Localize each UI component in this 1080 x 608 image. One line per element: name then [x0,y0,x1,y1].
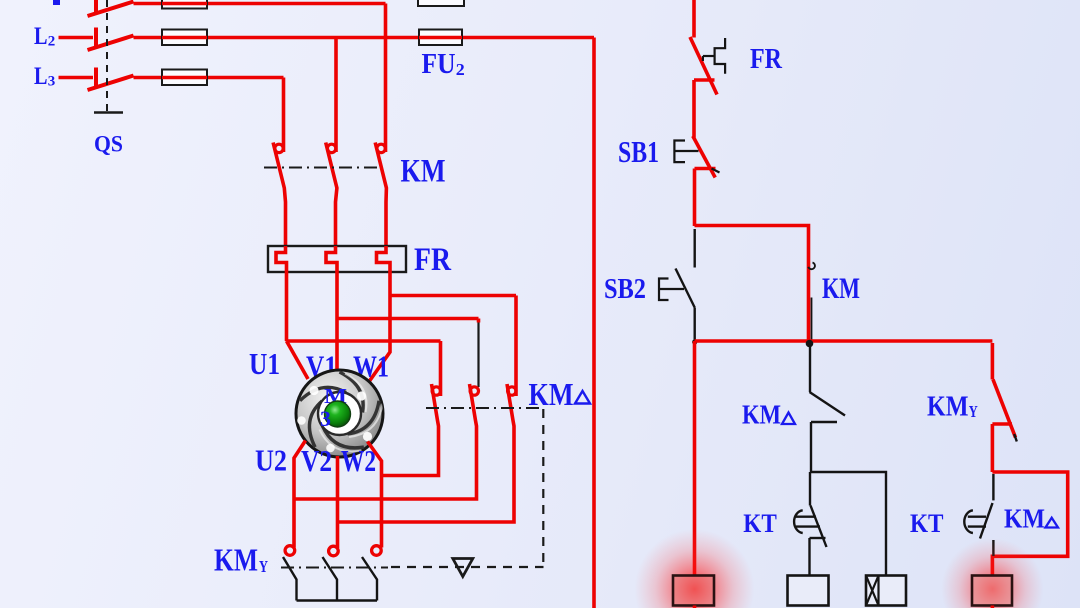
svg-text:FU: FU [422,48,456,80]
wire below KM coil [693,606,697,608]
KM-delta linkage dash-dot [426,407,543,409]
wire L1 drop to KM contact 3 [384,4,388,153]
wire motor V2 down [336,456,340,548]
wire motor U2 down [294,441,306,548]
svg-text:KT: KT [910,509,944,538]
wire common node row y343 [695,339,993,343]
wire L1 phase line [134,2,386,6]
svg-text:3: 3 [320,406,331,431]
SB1 button actuator [674,141,719,173]
svg-text:2: 2 [456,60,465,79]
contactor KM-Y contact 1 hook [285,546,295,556]
wire mid branch down [809,472,811,506]
wire node line3 to KM-delta contact 1 [287,339,441,343]
junction dot SB2 bottom [692,339,697,344]
label KM-delta mid [742,400,795,430]
timer KT NC delayed contact (right, black open) [964,474,993,556]
pushbutton SB1 (stop, NC) [693,136,716,226]
contactor KM-delta contact 3 [338,296,517,523]
svg-text:QS: QS [94,132,123,157]
label L1 remnant [53,0,60,5]
wire through FU2 fuses [419,36,462,40]
FR heater element phase 3 [377,246,391,272]
FR heater element phase 2 [326,246,337,272]
KM aux contact black remnants [808,263,815,342]
wire control rail from L2 (right vertical full height) [592,38,596,608]
fuse FU1 L1 [162,0,207,9]
fuse FU2 L2 [419,30,462,46]
svg-text:KT: KT [743,509,777,538]
svg-text:KM: KM [1004,504,1045,534]
coil KT (box with X) [866,576,906,606]
wire U1 diagonal into motor [287,341,309,379]
svg-text:L: L [34,63,48,90]
mechanical link dashed to KM-delta [391,409,544,567]
fuse FU1 L2 [162,30,207,46]
svg-text:SB1: SB1 [618,134,659,169]
KM-Y NC black blade tip [1014,434,1017,442]
svg-text:KM: KM [927,392,969,423]
wire L1 to control branch [692,0,696,38]
contactor KM main contact 1 [273,143,285,247]
contactor KM-Y NC interlock (red, closed) [992,343,1015,472]
wire L2 lead [59,36,94,40]
contactor KM-Y contact 3 hook [372,546,382,556]
thermal relay FR NC contact (control) [690,37,717,138]
wire motor W2 down [368,442,382,548]
thermal relay FR heater box [268,246,406,272]
wire left branch down to KM coil [693,341,697,576]
pushbutton SB2 (start, NO, black) [676,229,695,341]
glow around KM-delta coil [941,538,1043,608]
svg-text:KM: KM [214,542,258,578]
FR heater element phase 1 [276,246,287,272]
wire L3 lead [59,76,94,80]
svg-text:L: L [34,23,48,50]
switch QS linkage dashed line [94,0,123,113]
SB2 button actuator [659,279,684,301]
KM-Y linkage dash-dot [281,567,388,569]
linkage triangle symbol [453,559,473,577]
svg-text:KM: KM [401,154,446,190]
svg-text:KM: KM [742,400,781,430]
motor M outer ring [296,370,383,457]
wire L3 phase line [134,76,284,80]
contactor KM-delta contact 1 [382,341,441,476]
contactor KM-delta contact 2 upper black segment [477,322,479,387]
svg-text:KM: KM [529,376,574,412]
svg-text:FR: FR [414,242,452,278]
wire FR to motor V1 [335,272,339,372]
KM-Y contact blades and star bus [283,557,377,601]
svg-text:KM: KM [822,272,860,305]
coil KM-Y [788,576,829,606]
wire L2 drop to KM contact 2 [334,38,338,153]
wire node line2 to KM-delta contact 2 [337,317,479,321]
label KM-delta power [529,376,591,412]
KM linkage dash-dot line [264,167,382,169]
contactor KM-delta NC interlock (black, open) [810,346,846,472]
glow around KM coil [635,529,755,608]
svg-text:FR: FR [750,43,783,75]
coil KM-delta [972,576,1012,606]
svg-text:SB2: SB2 [604,273,646,305]
contactor KM main contact 3 [375,143,386,247]
svg-text:Y: Y [259,557,268,576]
contactor KM main contact 2 [326,143,337,247]
wire below KM-delta coil [991,606,995,608]
wire through FU1 fuses [162,4,207,78]
svg-text:3: 3 [48,74,56,90]
svg-text:U2: U2 [255,443,287,478]
timer KT NO delayed contact (left) [794,506,826,576]
switch QS pole L1 blade [88,0,134,16]
wire KM-delta self-hold loop (red) [992,472,1067,576]
wire L2 phase line [134,36,595,40]
contactor KM-Y contact 2 hook [329,546,339,556]
svg-text:Y: Y [969,402,978,421]
switch QS pole L3 [88,68,134,91]
fuse FU2 L1 [418,0,464,6]
wire branch to KT coil [811,472,886,576]
svg-text:V2: V2 [301,443,332,478]
svg-text:2: 2 [48,34,56,50]
label KM-delta right [1004,504,1058,534]
coil KM [673,576,714,606]
contactor KM-delta contact 2 [294,319,479,500]
wire FR to motor U1 [285,272,289,341]
fuse FU1 L3 [162,70,207,86]
svg-text:U1: U1 [249,346,280,381]
wire FR to motor W1 [367,272,390,385]
FR thermal actuator symbol [703,38,725,74]
wire junction to KM self-hold branch [695,226,809,344]
wire L3 drop to KM contact 1 [282,78,286,153]
motor green center ball [325,401,351,427]
junction dot KM branch [806,340,814,348]
switch QS pole L2 [88,28,134,51]
wire node line1 to KM-delta contact 3 [390,294,516,298]
